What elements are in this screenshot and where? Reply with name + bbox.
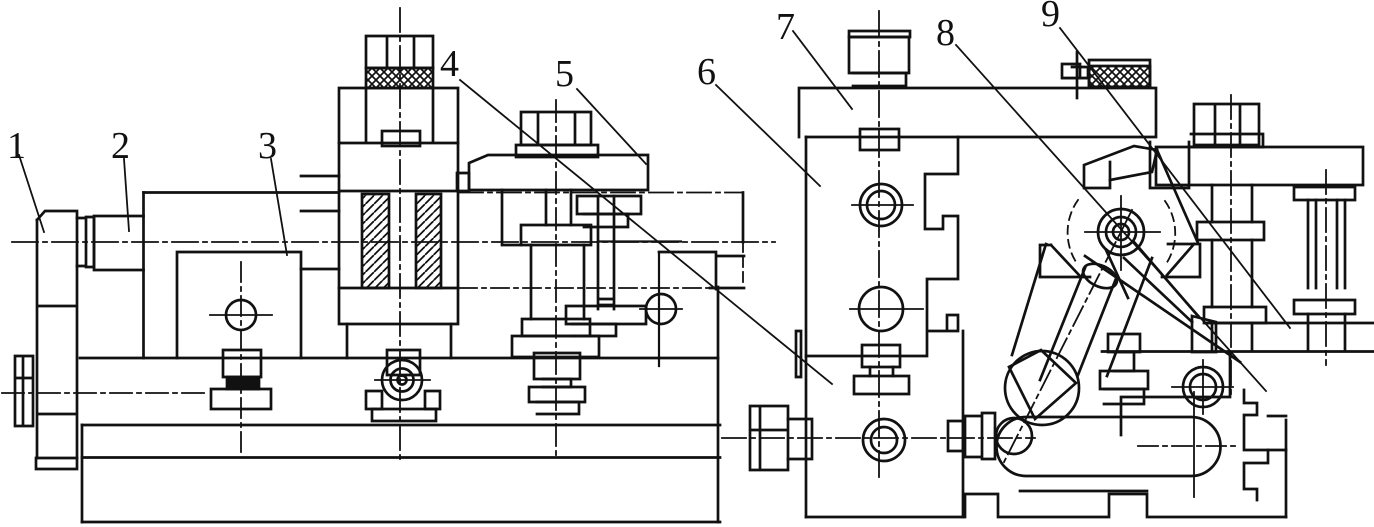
T-bolt 2 foot — [372, 409, 436, 421]
rv left knob step — [788, 419, 812, 459]
clamp5 adjust screw shank — [598, 196, 614, 309]
clamp5 base block — [512, 336, 599, 357]
rv bottom-right body edge — [1285, 420, 1288, 517]
jaw bore hidden lines — [301, 176, 339, 269]
rv top plate — [799, 88, 1156, 137]
block 3 circle tick — [210, 314, 272, 316]
rv arm small end circle — [996, 418, 1032, 454]
rv square nut mid — [862, 345, 900, 367]
rv pivot ring mid — [1106, 217, 1136, 247]
rv latch pin — [1076, 52, 1079, 98]
rv stadium axis — [1138, 445, 1240, 447]
rv nut stem — [870, 367, 893, 376]
rv T-slot edge with profiles — [925, 137, 958, 356]
rv body left tab — [796, 331, 801, 377]
clamp5 handle arm — [566, 306, 646, 324]
rv lower right circle inner — [1190, 374, 1216, 400]
rv small T-bolt foot2 — [1104, 389, 1144, 404]
rv inner step — [1121, 352, 1230, 435]
clamp5 base collar — [522, 319, 590, 336]
T-bolt 2 left ear — [366, 391, 382, 409]
rv arm screw edge — [1106, 250, 1128, 298]
rv upper bolt circle inner — [867, 191, 895, 219]
base band line y=425 — [82, 424, 720, 427]
workpiece step line — [718, 255, 744, 258]
block 3 / T-bolt centerline — [240, 262, 242, 457]
rv arm square head — [1009, 350, 1076, 419]
body under workpiece right — [659, 252, 716, 289]
rv latch piece — [1062, 64, 1088, 78]
rv left knob — [750, 406, 788, 470]
clamp5 washer — [516, 145, 598, 157]
rv right bolt shank upper — [1212, 185, 1252, 222]
clamp5 collar — [521, 225, 591, 245]
rv hook pawl — [1084, 146, 1157, 188]
rv right bolt shank mid — [1212, 240, 1252, 307]
T-bolt 3 foot2 — [537, 402, 579, 414]
rv link edge upper — [1134, 242, 1198, 316]
rv body top right y=351 — [1102, 350, 1374, 353]
rv right bolt flange1 — [1197, 222, 1264, 240]
body left edge upper — [142, 193, 145, 217]
rv arm cylinder left edge — [1040, 268, 1085, 380]
clamp5 handle ball tick — [640, 308, 682, 310]
rv arm cylinder right edge — [1078, 276, 1117, 375]
clamp5 strap plate — [469, 155, 648, 190]
label 5 leader — [577, 89, 646, 164]
rv link long edge — [1085, 256, 1240, 362]
rv far column flange — [1294, 300, 1355, 314]
clamp5 screw axis — [555, 100, 557, 455]
rv body bottom edge with notches — [806, 494, 1286, 517]
rv bottom-right connector — [1268, 416, 1286, 450]
rv right bolt shank lower — [1212, 323, 1252, 351]
rv body step line y=491 — [1020, 490, 1147, 493]
T-bolt 2 rings — [382, 360, 422, 400]
column lower section — [339, 288, 458, 324]
rv body top right y=323 — [1206, 322, 1374, 325]
svg-text:7: 7 — [776, 6, 795, 48]
rv latch tick — [1062, 78, 1088, 80]
rv far column foot — [1294, 187, 1355, 200]
rv pivot phantom arc right — [1165, 201, 1175, 264]
rv knob axis centerline — [722, 437, 1035, 439]
T-bolt 1 top — [223, 350, 261, 377]
rv right bolt axis — [1230, 95, 1232, 399]
T-bolt 2 tick — [375, 379, 430, 381]
label 2 leader — [124, 159, 129, 231]
base band line y=457 — [82, 456, 720, 459]
T-bolt 2 inner ring — [391, 369, 414, 392]
rv lower circle — [863, 419, 905, 461]
rv hook diagonal to jaw — [1157, 150, 1198, 243]
rv pivot phantom arc left — [1068, 200, 1078, 265]
rv left jaw block — [1040, 245, 1090, 277]
T-bolt 3 foot — [529, 387, 585, 402]
rv arm jam nuts — [948, 413, 995, 459]
rv link pad — [1192, 316, 1216, 352]
body top edge — [144, 191, 340, 194]
rv far column shank — [1308, 200, 1345, 288]
label 4 leader — [460, 80, 832, 384]
rv rear body edge — [962, 331, 965, 517]
rv body left edge — [805, 137, 808, 517]
rv body vertical centerline — [878, 11, 880, 480]
rv knurl border — [1089, 60, 1150, 87]
column hex bolt head — [366, 36, 433, 68]
svg-text:1: 1 — [7, 125, 26, 167]
T-bolt 2 top — [387, 350, 420, 375]
label 6 leader — [716, 85, 820, 186]
rv cap neck — [853, 73, 906, 86]
svg-text:4: 4 — [440, 43, 459, 85]
rv lever outer right edge — [1107, 258, 1152, 376]
rv right hex bolt — [1194, 104, 1259, 145]
T-bolt 3 top — [534, 353, 580, 379]
clamp5 right sleeve — [577, 196, 641, 214]
rv plate nut block — [860, 129, 899, 150]
rv right bolt washer — [1191, 134, 1263, 147]
washer between knob blocks — [77, 217, 94, 267]
rv T-nut mid — [854, 376, 909, 394]
workpiece solid centerline segment — [600, 240, 681, 242]
workpiece bottom line solid part — [710, 287, 744, 290]
T-bolt 2 core — [398, 376, 407, 385]
label 1 leader — [19, 155, 44, 232]
block 1 end bracket — [37, 211, 77, 458]
rv small T-bolt top — [1108, 334, 1140, 352]
rv cap body — [849, 37, 909, 73]
column lower flange — [347, 324, 451, 358]
rv upper bolt circle — [860, 184, 902, 226]
rv pivot cross ticks — [1085, 196, 1160, 270]
rv arm cap ellipse — [1079, 259, 1121, 293]
base right edge — [717, 287, 720, 522]
block 1 foot shoe — [36, 458, 77, 469]
label 8 leader — [956, 45, 1266, 391]
rv pivot ring outer — [1098, 209, 1144, 255]
rv arm axis dashline — [1004, 210, 1132, 462]
label 3 leader — [271, 159, 287, 255]
column axis centerline x=400 — [399, 8, 401, 460]
body step edge under workpiece — [658, 252, 660, 366]
label 7 leader — [793, 31, 852, 109]
workpiece bar solid right edge — [742, 193, 745, 243]
block 3 — [177, 252, 301, 358]
rv body split line — [806, 355, 925, 358]
rv upper circle tick — [852, 204, 913, 206]
rv knurled thumb screw — [1089, 66, 1150, 87]
column wide block — [339, 88, 458, 143]
rv far column lower — [1308, 314, 1345, 351]
workpiece right edge hidden — [742, 242, 744, 287]
clamp5 hex nut — [521, 112, 591, 145]
rv lower right circle ticks — [1172, 360, 1233, 414]
T-bolt 1 foot — [211, 389, 271, 409]
rv far column axis — [1325, 170, 1327, 365]
column slot — [382, 131, 420, 146]
column hatched left wall — [362, 194, 389, 288]
rv block right of hook — [1150, 142, 1189, 188]
workpiece hidden bottom line — [459, 287, 718, 289]
clamp5 spring sleeve edge — [502, 190, 521, 245]
centerline main axis y=242 — [12, 241, 775, 243]
clamp5 left heel — [457, 173, 469, 191]
clamp5 handle arm lower — [572, 324, 616, 336]
block 3 circle — [226, 300, 256, 330]
rv bottom-right T-slot — [1244, 390, 1268, 500]
svg-text:8: 8 — [936, 12, 955, 54]
svg-text:6: 6 — [697, 51, 716, 93]
block 2 coupling — [94, 216, 144, 270]
rv hook inner line — [1109, 162, 1112, 180]
clamp5 pillar body — [531, 245, 584, 319]
clamp5 right sleeve step — [584, 214, 628, 227]
clamp5 handle ball — [646, 294, 676, 324]
base left edge — [81, 425, 84, 522]
rv arm big circle — [1005, 351, 1079, 425]
label 9 leader — [1060, 28, 1290, 328]
rv stadium slot — [996, 417, 1220, 476]
rv middle circle tick — [850, 308, 923, 310]
centerline knob axis y=393 — [2, 392, 208, 394]
workpiece bar top dashdot — [459, 192, 743, 194]
T-bolt 3 stem — [543, 379, 571, 387]
svg-text:3: 3 — [258, 125, 277, 167]
left knob — [15, 356, 33, 426]
rv right bolt flange2 — [1204, 307, 1266, 323]
rv pivot rings — [1113, 224, 1129, 240]
svg-text:5: 5 — [555, 53, 574, 95]
svg-text:2: 2 — [111, 125, 130, 167]
base shelf line — [80, 357, 718, 360]
rv right clamp plate — [1156, 147, 1363, 185]
rv right jaw block — [1162, 244, 1200, 277]
base bottom edge — [82, 521, 720, 524]
column mid section — [339, 143, 458, 191]
clamp5 screw shank — [546, 190, 571, 225]
rv lower right circle — [1183, 367, 1223, 407]
rv lower circle inner — [871, 427, 897, 453]
rv small T-bolt stem — [1114, 352, 1134, 371]
body left edge lower — [142, 270, 145, 358]
rv lever outer left edge — [1012, 244, 1046, 355]
rv middle circle — [859, 287, 903, 331]
rv link edge lower — [1124, 258, 1192, 322]
T-bolt 2 right ear — [425, 391, 440, 409]
column outer walls hatched zone — [339, 191, 458, 288]
rv cap top — [849, 31, 910, 37]
column knurled washer — [366, 68, 433, 88]
T-bolt 1 dark band — [227, 377, 259, 389]
rv stadium cap vertical centerline — [1193, 392, 1195, 497]
rv small T-bolt foot — [1100, 371, 1148, 389]
column hatched right wall — [416, 194, 441, 288]
svg-text:9: 9 — [1041, 0, 1060, 35]
